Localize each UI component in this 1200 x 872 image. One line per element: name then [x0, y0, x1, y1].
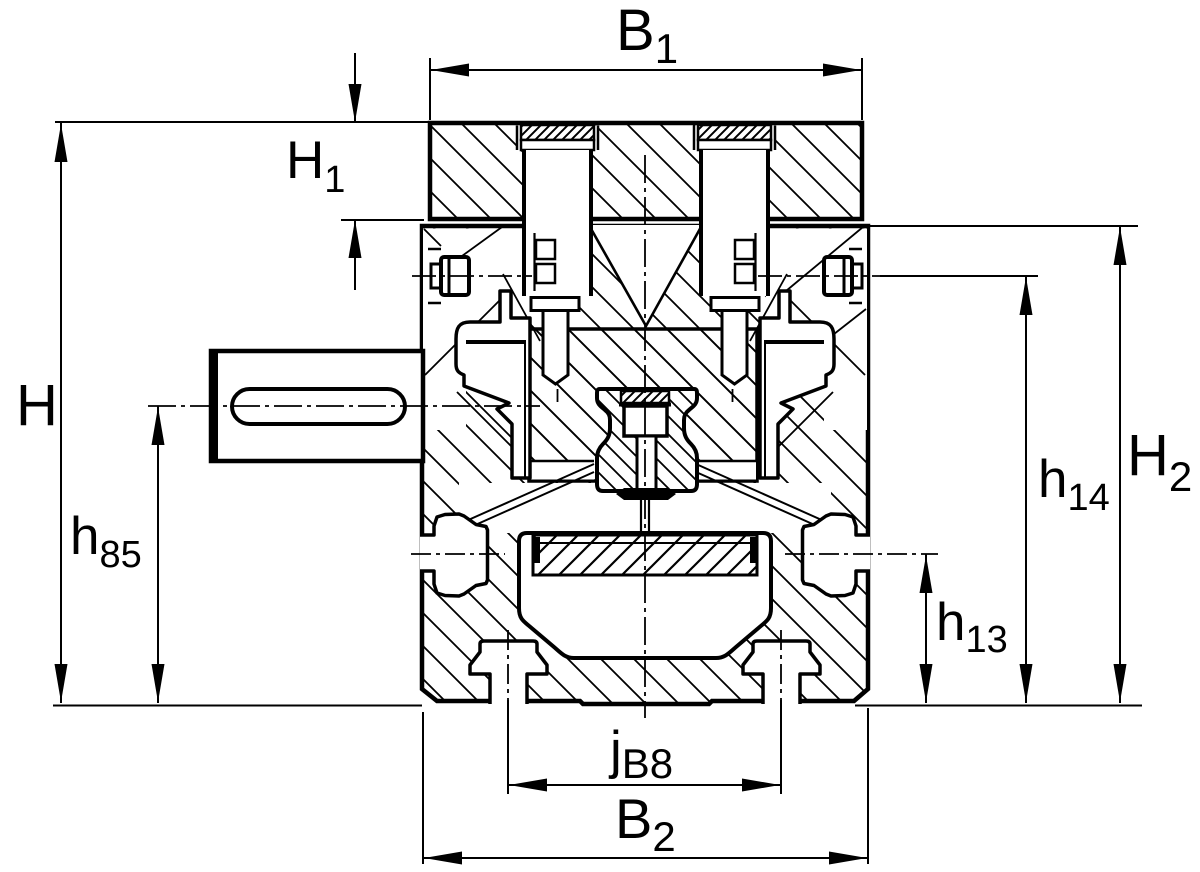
dimension B1	[429, 58, 431, 120]
dimension jB8	[509, 784, 780, 786]
dimension B2	[422, 712, 424, 864]
dimension h14	[1025, 277, 1027, 703]
washer (black)	[616, 488, 676, 500]
bolt 1 seal clip	[533, 233, 535, 291]
bolt 1 cap (hatched)	[521, 125, 594, 140]
dimension h85	[157, 406, 159, 703]
left side screw pocket lips	[428, 249, 441, 303]
plate end bar left	[533, 537, 540, 563]
block corner cut right	[696, 461, 756, 480]
bolt 2 tip centerline	[732, 389, 734, 402]
bottom T-slot right	[743, 641, 820, 704]
bolt 1 recess	[517, 126, 598, 151]
bolt 2 cap (hatched)	[698, 125, 771, 140]
top plate (hatched)	[430, 123, 862, 219]
bolt 1 shank	[524, 150, 591, 296]
side slot centerline right + h13 extension	[785, 553, 938, 555]
shaft	[211, 351, 423, 461]
left side T-slot	[420, 514, 488, 596]
bottom slot centerline right + jB8 extension	[780, 630, 782, 700]
svg-text:H: H	[16, 373, 58, 438]
shaft slot	[232, 389, 405, 424]
nut body vase (hatched dense)	[597, 389, 697, 491]
bolt 1 washer strip	[521, 140, 594, 150]
rail plate (hatched)	[533, 535, 757, 575]
white pool left of bolt 1	[423, 229, 524, 327]
main body (hatched)	[422, 226, 868, 704]
left side screw flange	[431, 264, 441, 288]
nut guide box	[624, 406, 667, 436]
right side screw pocket lips	[849, 249, 862, 303]
bolt 2 washer strip	[698, 140, 771, 150]
V notch edges	[590, 227, 701, 326]
dimension h13	[925, 555, 927, 704]
shaft end band	[210, 351, 218, 461]
rail (white)	[519, 533, 771, 658]
side slot centerline left	[411, 553, 505, 555]
left ear cavity (white)	[456, 291, 530, 478]
plate top line	[533, 542, 757, 544]
left side screw head	[441, 257, 469, 295]
bottom white band of cavity	[459, 483, 831, 533]
shaft centerline	[148, 405, 540, 407]
dimension H2	[870, 225, 1138, 227]
rod lines to plate	[641, 500, 649, 533]
side screw centerline left	[412, 275, 532, 277]
bolt 2 threaded end	[722, 311, 747, 385]
dimension H	[60, 123, 62, 703]
right side screw slot	[843, 259, 846, 293]
right side screw head	[824, 257, 852, 295]
bolt 2 shank	[701, 150, 768, 296]
white pool right of bolt 2	[766, 229, 867, 327]
right ear cavity (white)	[760, 291, 834, 478]
dimension H1	[55, 121, 428, 123]
block corner cut left	[531, 461, 594, 480]
main centerline	[644, 155, 646, 718]
right side screw flange	[852, 264, 862, 288]
nut cap base line	[619, 403, 671, 407]
inner wall line right	[764, 340, 766, 479]
right side T-slot	[803, 514, 871, 596]
wedge lines right	[696, 464, 824, 526]
bottom slot centerline left + jB8 extension	[507, 630, 509, 700]
nut cap (hatched dense)	[621, 391, 669, 403]
bolt 1 threaded end	[543, 311, 568, 385]
inner wall line left	[524, 340, 526, 479]
screw rod	[637, 436, 656, 490]
bolt 2 recess	[694, 126, 775, 151]
white V notch between bolts	[590, 225, 701, 326]
bolt 1 tip centerline	[557, 389, 559, 402]
wedge lines left	[466, 464, 594, 526]
bolt 2 seal clip	[754, 233, 756, 291]
side screw centerline right + h14 extension	[758, 275, 880, 277]
bottom T-slot left	[470, 641, 547, 704]
ear ledge right	[766, 340, 824, 344]
bolt 1 washer disc	[531, 298, 579, 311]
left side screw slot	[448, 259, 451, 293]
plate end bar right	[750, 537, 757, 563]
central block (hatched)	[529, 329, 757, 481]
bolt 2 washer disc	[711, 298, 759, 311]
ear ledge left	[466, 340, 524, 344]
